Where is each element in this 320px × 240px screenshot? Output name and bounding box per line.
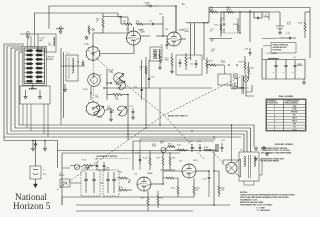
wire bus6	[58, 124, 233, 153]
capacitor C20	[94, 158, 98, 170]
label 117V	[240, 87, 249, 90]
capacitor C21	[221, 140, 225, 152]
wire if area	[186, 8, 209, 61]
wire spk links	[223, 160, 262, 185]
resistor R31	[215, 20, 223, 33]
switch S1A	[85, 45, 100, 61]
title national	[13, 193, 51, 212]
resistor R6	[96, 13, 104, 33]
varcap C2A	[114, 73, 126, 90]
jack box	[218, 65, 231, 85]
ground G5	[158, 66, 162, 69]
capacitor C14	[190, 60, 197, 68]
capacitor C52A	[273, 60, 278, 80]
capacitor C31	[220, 18, 225, 25]
transformer T6	[239, 150, 259, 181]
jack J2	[59, 173, 70, 187]
label V1	[126, 29, 144, 32]
label C48	[297, 63, 303, 67]
ground G4	[63, 84, 66, 92]
capacitor C18	[189, 141, 194, 152]
resistor R22	[166, 144, 175, 150]
wire osc verticals	[61, 48, 64, 120]
label S1B	[83, 89, 88, 91]
antenna A2	[59, 27, 62, 34]
capacitor C30	[254, 12, 269, 19]
tube V5	[182, 164, 196, 178]
node B plus	[175, 4, 187, 9]
resistor R41	[119, 187, 132, 191]
link S1 shaft	[92, 58, 94, 102]
filter can C23B	[103, 168, 119, 196]
resistor R27	[157, 152, 165, 170]
wire osc v107	[106, 69, 112, 100]
tube V1	[127, 27, 141, 45]
resistor R44	[163, 177, 178, 179]
wire left drop	[4, 137, 58, 168]
antenna A1	[26, 32, 29, 39]
label C37	[266, 53, 278, 55]
ift T2	[140, 29, 162, 61]
label C2C	[110, 110, 115, 114]
wire v drop	[145, 57, 149, 126]
resistor R38	[239, 56, 247, 74]
wire housing drops	[23, 104, 48, 137]
resistor R20b	[248, 62, 254, 78]
label R25	[152, 144, 157, 148]
label C2A	[109, 69, 114, 74]
phono jack	[233, 74, 238, 79]
phono arrow	[230, 83, 238, 91]
ground G7	[262, 146, 266, 149]
varcap C2C	[117, 106, 127, 116]
resistor R9	[154, 49, 162, 66]
note tone controls	[263, 43, 296, 54]
tube V4	[137, 177, 151, 191]
capacitor C50	[30, 160, 41, 188]
resistor R43	[141, 191, 150, 211]
dial cord A	[88, 50, 205, 160]
notes	[240, 192, 295, 212]
wire tr mid	[209, 10, 269, 42]
rf coil T1	[66, 53, 78, 81]
ground G2	[24, 90, 27, 99]
wire psu left	[262, 48, 266, 79]
wire v2 if3	[176, 6, 186, 39]
capacitor C13	[148, 77, 155, 80]
ground G6	[302, 79, 306, 84]
wire c50	[34, 140, 46, 176]
speaker SP1	[226, 125, 241, 177]
ground G3	[38, 90, 41, 99]
resistor R33	[233, 18, 239, 33]
capacitor C9	[161, 41, 169, 49]
wire psu bottom	[246, 85, 254, 96]
resistor R30	[209, 7, 225, 13]
capacitor C52C	[292, 60, 297, 80]
pot R19	[74, 164, 79, 169]
capacitor C4	[77, 60, 85, 66]
label loudness	[96, 156, 131, 159]
dial cord C	[57, 115, 164, 190]
label V5	[179, 160, 198, 163]
resistor R14	[165, 53, 174, 73]
dial cord B	[164, 77, 240, 115]
labels if col	[210, 10, 215, 53]
wire c8 link	[106, 108, 113, 121]
loop box	[38, 34, 56, 52]
ground GA1	[31, 140, 34, 151]
wire plate V2	[175, 6, 177, 32]
capacitor C52B	[283, 60, 288, 80]
resistor R19b	[206, 60, 238, 66]
resistor R40	[118, 171, 127, 179]
wire block feeders	[28, 34, 46, 52]
label S1A	[84, 43, 89, 46]
capacitor C33	[262, 33, 296, 40]
wire audio box	[133, 139, 216, 170]
label circuit board	[47, 57, 56, 61]
wire tr frame	[209, 8, 310, 59]
capacitor C15A	[143, 1, 158, 7]
choke L8	[268, 57, 296, 59]
label osc small 1	[95, 95, 100, 99]
varcap C2B	[94, 106, 105, 117]
pot R21	[160, 141, 166, 153]
wire v4 links	[151, 171, 182, 185]
wire audio links	[70, 178, 131, 183]
resistor R2	[85, 25, 96, 40]
table dial legend	[266, 95, 306, 131]
wire osc links	[61, 45, 134, 100]
inductor L2	[29, 84, 36, 90]
ground G8	[265, 152, 268, 156]
switch S1B	[88, 74, 102, 87]
legend ground symbol	[254, 144, 294, 162]
switch S1C	[85, 101, 100, 117]
wire mid top	[103, 14, 163, 33]
wire top bus A	[49, 6, 175, 29]
label V2	[165, 29, 184, 32]
link tone shaft	[221, 32, 241, 34]
capacitor C19	[197, 141, 201, 152]
capacitor C36	[244, 48, 251, 56]
ground GA2	[43, 140, 46, 151]
resistor R20	[82, 159, 92, 169]
wire left nest	[4, 44, 254, 152]
capacitor C17	[103, 162, 106, 171]
resistor R16	[140, 66, 148, 74]
wire antenna row	[20, 29, 64, 34]
resistor R23	[175, 144, 188, 151]
wire tr lower	[269, 12, 284, 34]
resistor R48	[218, 181, 225, 197]
resistor R24	[204, 147, 216, 151]
wire tone verts	[224, 12, 240, 33]
junction volume	[215, 144, 218, 152]
resistor R26	[143, 151, 151, 171]
wire misc6	[159, 88, 161, 125]
resistor R7	[123, 21, 132, 25]
resistor R15	[185, 53, 192, 70]
wire det box	[176, 55, 202, 75]
resistor R8	[136, 21, 143, 25]
resistor R28	[169, 152, 175, 170]
capacitor C7	[149, 21, 157, 26]
label selector switch	[168, 116, 188, 118]
inductor L3	[48, 37, 55, 46]
label S1C	[98, 117, 103, 119]
wire left feeders	[4, 44, 24, 52]
wire spk feed	[209, 151, 219, 206]
wire psu frame	[266, 60, 305, 80]
wire mid hbus	[103, 87, 243, 89]
wire r2728	[160, 169, 175, 171]
resistor R32	[224, 7, 241, 13]
capacitor C22	[135, 152, 141, 164]
resistor R18	[206, 58, 213, 75]
label C16	[184, 29, 189, 33]
resistor R42	[157, 191, 163, 208]
capacitor C12	[129, 106, 135, 119]
wire coil housing	[20, 86, 50, 104]
filter can C23A	[81, 167, 100, 196]
wire bot rails	[62, 153, 230, 211]
resistor R46	[193, 178, 200, 197]
label V4	[134, 172, 153, 176]
wire v1 v2	[141, 33, 168, 37]
capacitor C11	[179, 59, 182, 67]
wire loudness	[62, 166, 110, 171]
wire mid drops	[61, 95, 128, 141]
dial cord D	[210, 149, 229, 169]
wire osc v141	[134, 60, 143, 100]
resistor R36	[287, 12, 310, 38]
wire r6 bottom	[93, 13, 128, 47]
wire det links	[238, 75, 244, 94]
capacitor C8	[107, 106, 112, 115]
capacitor C44	[196, 170, 210, 183]
resistor R4	[107, 93, 129, 100]
tube V2	[167, 32, 181, 46]
connector block J1	[22, 46, 46, 85]
wire top bus B	[35, 13, 119, 34]
pilot lamp	[244, 74, 249, 85]
resistor R45	[171, 178, 179, 197]
